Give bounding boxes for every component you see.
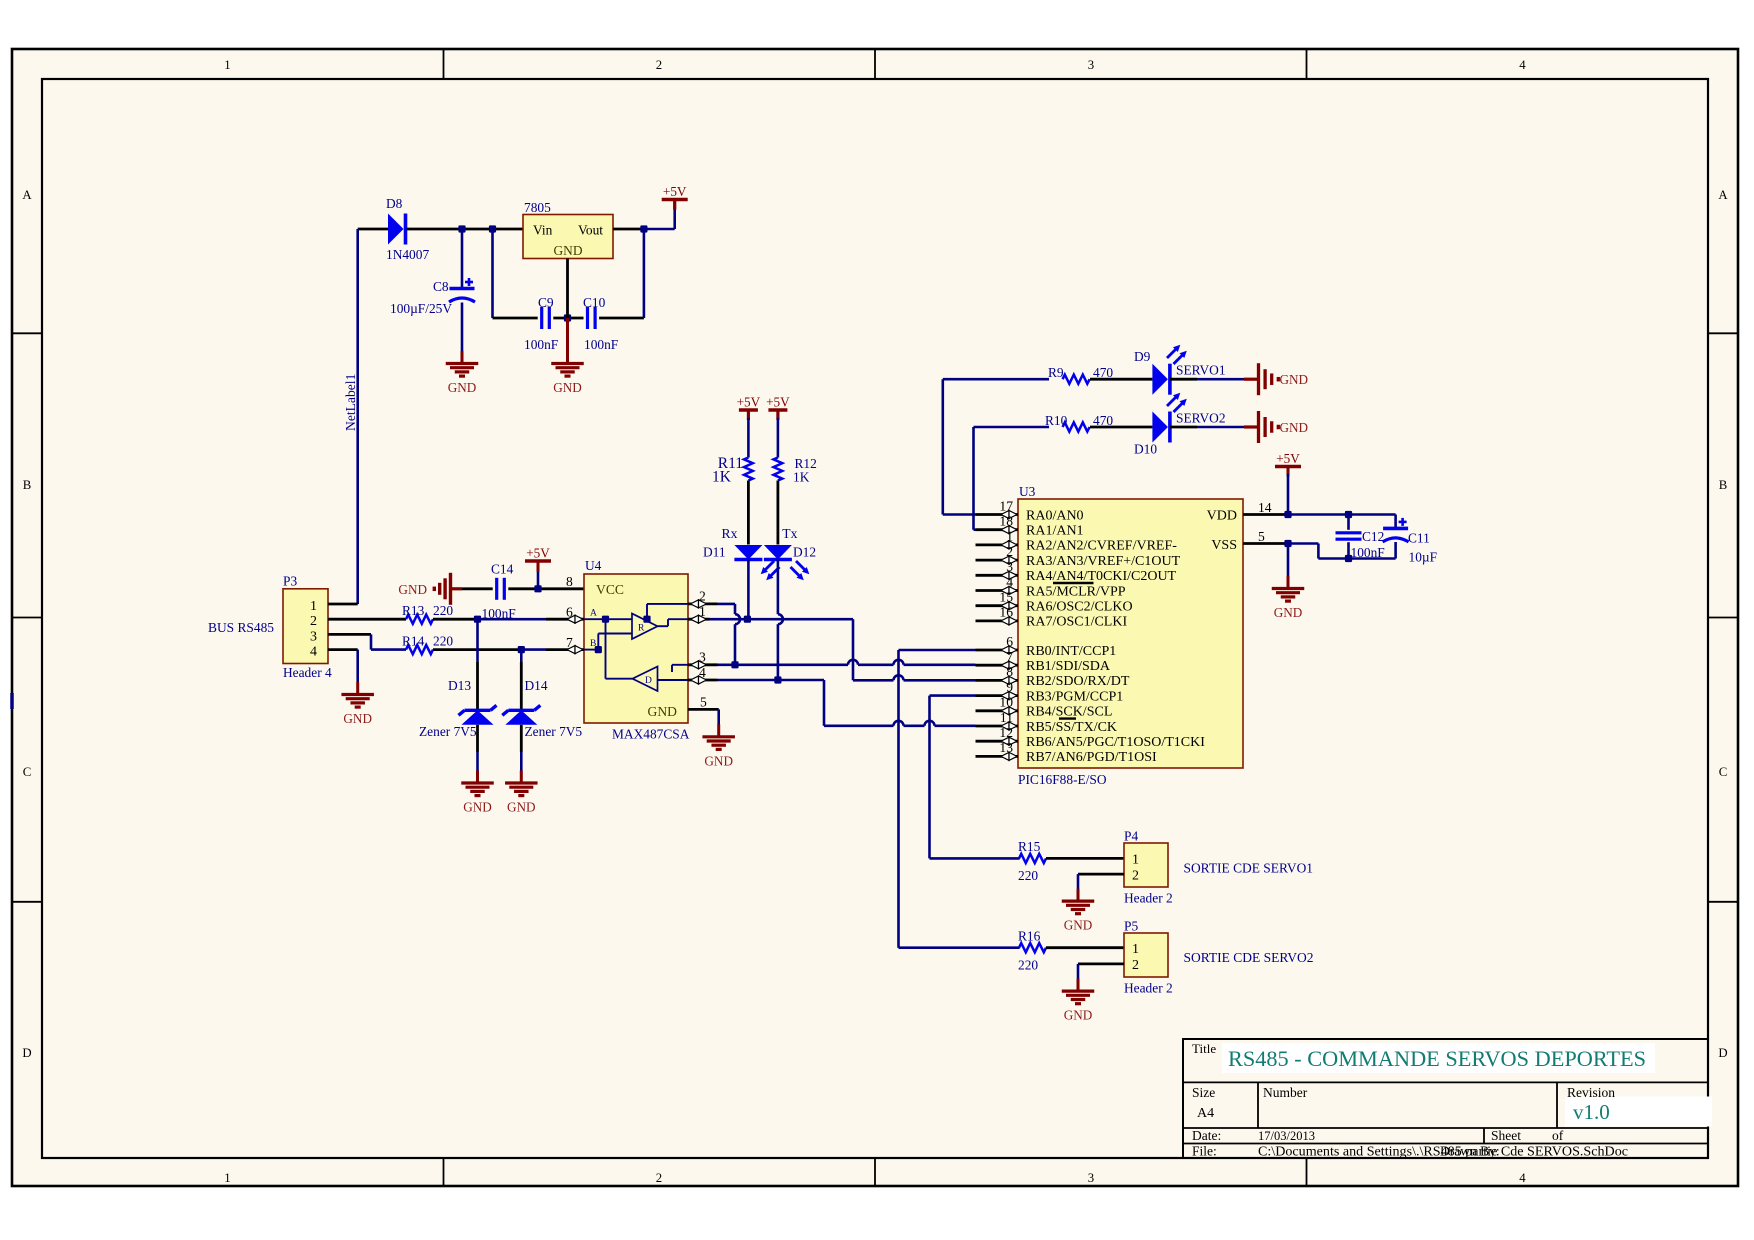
wire R16 to P5 — [1046, 946, 1124, 949]
svg-text:MAX487CSA: MAX487CSA — [612, 727, 690, 742]
svg-text:4: 4 — [699, 665, 706, 680]
svg-text:GND: GND — [463, 800, 492, 815]
pin U4-3 — [688, 663, 718, 666]
pin U3 7 (RB1) — [976, 664, 1019, 667]
svg-text:3: 3 — [699, 650, 706, 665]
svg-text:Drawn By:: Drawn By: — [1440, 1144, 1500, 1159]
svg-text:GND: GND — [553, 243, 582, 258]
svg-text:of: of — [1552, 1128, 1564, 1143]
zener diode D13 — [465, 709, 491, 712]
svg-text:3: 3 — [310, 629, 317, 644]
svg-text:U3: U3 — [1019, 484, 1036, 499]
ground right of D9 — [1244, 378, 1258, 381]
svg-text:R14: R14 — [402, 633, 425, 648]
svg-text:220: 220 — [433, 603, 453, 618]
svg-text:D8: D8 — [386, 196, 403, 211]
junction C12 bottom — [1345, 555, 1352, 562]
svg-text:1: 1 — [1132, 942, 1139, 957]
junction at C9 rail riser — [489, 225, 496, 232]
wire D10 to ground — [1170, 426, 1197, 429]
led D11 — [734, 545, 762, 560]
svg-text:A: A — [1718, 188, 1728, 202]
ground under D14 — [520, 771, 523, 784]
wire 7805 Vout to +5V — [613, 228, 644, 231]
svg-text:A4: A4 — [1197, 1106, 1214, 1121]
svg-text:BUS RS485: BUS RS485 — [208, 620, 274, 635]
svg-text:GND: GND — [704, 753, 733, 768]
svg-text:3: 3 — [1088, 58, 1094, 72]
svg-text:16: 16 — [999, 605, 1013, 620]
pin U3 10 (RB4) — [976, 709, 1019, 712]
pin P3-3 step down — [328, 633, 371, 636]
wire bottom rail — [493, 317, 538, 320]
svg-text:RB1/SDI/SDA: RB1/SDI/SDA — [1026, 659, 1111, 674]
pin U4-2 — [688, 603, 718, 606]
svg-text:RA7/OSC1/CLKI: RA7/OSC1/CLKI — [1026, 615, 1127, 630]
svg-text:D9: D9 — [1134, 349, 1151, 364]
svg-text:GND: GND — [1064, 918, 1093, 933]
svg-text:Sheet: Sheet — [1491, 1128, 1521, 1143]
svg-text:GND: GND — [343, 711, 372, 726]
wire RB0 net corner — [899, 649, 976, 652]
wire RB3 net to R15 — [930, 857, 1020, 860]
connector P5 — [1124, 933, 1168, 977]
wire gnd to C14 — [462, 587, 493, 590]
wire D11 to A-row — [747, 560, 750, 620]
svg-text:7: 7 — [1006, 649, 1013, 664]
svg-text:RB7/AN6/PGD/T1OSI: RB7/AN6/PGD/T1OSI — [1026, 750, 1157, 765]
wire D9 to ground — [1170, 378, 1197, 381]
svg-text:1K: 1K — [793, 470, 810, 485]
svg-text:RS485 - COMMANDE SERVOS DEPORT: RS485 - COMMANDE SERVOS DEPORTES — [1228, 1046, 1646, 1071]
svg-text:4: 4 — [1519, 1171, 1526, 1185]
svg-text:GND: GND — [553, 380, 582, 395]
junction A-line — [474, 616, 481, 623]
svg-text:RB0/INT/CCP1: RB0/INT/CCP1 — [1026, 644, 1116, 659]
resistor R14 — [406, 645, 433, 654]
svg-text:Tx: Tx — [782, 526, 797, 541]
pin U4-4 — [688, 679, 718, 682]
svg-text:VCC: VCC — [596, 582, 624, 597]
svg-text:RA0/AN0: RA0/AN0 — [1026, 508, 1084, 523]
svg-text:RB6/AN5/PGC/T1OSO/T1CKI: RB6/AN5/PGC/T1OSO/T1CKI — [1026, 735, 1205, 750]
svg-text:RA3/AN3/VREF+/C1OUT: RA3/AN3/VREF+/C1OUT — [1026, 554, 1181, 569]
wire C9 to gnd stem — [553, 317, 583, 320]
svg-text:D: D — [1718, 1046, 1727, 1060]
U4 receiver triangle — [632, 614, 658, 640]
svg-text:2: 2 — [1132, 869, 1139, 884]
svg-text:A: A — [22, 188, 32, 202]
svg-text:Revision: Revision — [1567, 1085, 1615, 1100]
U4 internal R output to pin1 — [658, 625, 669, 627]
wire net input to D8 — [358, 228, 388, 231]
svg-text:v1.0: v1.0 — [1573, 1100, 1610, 1124]
ground under 7805 — [566, 318, 569, 351]
power +5V above VDD — [1275, 465, 1301, 468]
pin U4-7 — [546, 648, 584, 651]
svg-text:17/03/2013: 17/03/2013 — [1258, 1128, 1315, 1143]
svg-text:2: 2 — [1132, 958, 1139, 973]
connector P4 — [1124, 843, 1168, 887]
wire VSS to caps bottom — [1288, 542, 1318, 545]
svg-text:C8: C8 — [433, 279, 449, 294]
wire R13 to junction — [433, 618, 478, 621]
overline MCLR — [1053, 582, 1094, 584]
capacitor C8 — [450, 287, 475, 291]
pin U3 16 (RA7) — [976, 620, 1019, 623]
ground under P3 — [356, 682, 359, 695]
svg-text:4: 4 — [310, 645, 317, 660]
stray blue tick on left border — [10, 693, 14, 709]
U4 internal A to D output — [605, 619, 607, 679]
pin U3-14 VDD — [1243, 513, 1288, 516]
svg-text:6: 6 — [1006, 634, 1013, 649]
svg-text:6: 6 — [566, 605, 573, 620]
svg-text:Zener 7V5: Zener 7V5 — [419, 724, 477, 739]
capacitor C9 — [540, 307, 543, 329]
overline SS — [1059, 717, 1076, 719]
U4 internal A line — [584, 618, 632, 620]
svg-text:D: D — [22, 1046, 31, 1060]
svg-text:VDD: VDD — [1207, 509, 1237, 524]
power +5V above R11 — [739, 408, 758, 411]
wire VDD rail to C11 — [1288, 513, 1396, 516]
svg-text:GND: GND — [1064, 1008, 1093, 1023]
svg-text:1: 1 — [1006, 529, 1013, 544]
svg-text:C: C — [23, 765, 32, 779]
svg-text:Header 2: Header 2 — [1124, 891, 1173, 906]
svg-text:D14: D14 — [525, 678, 548, 693]
ground under P5 — [1077, 979, 1080, 992]
svg-text:7: 7 — [566, 635, 573, 650]
svg-text:B: B — [23, 478, 32, 492]
junction 7805 gnd stem — [564, 314, 571, 321]
svg-text:GND: GND — [1280, 420, 1309, 435]
svg-text:RA6/OSC2/CLKO: RA6/OSC2/CLKO — [1026, 600, 1133, 615]
led D10 — [1152, 412, 1168, 443]
title highlight — [1222, 1043, 1655, 1073]
svg-text:R: R — [638, 624, 645, 634]
svg-text:9: 9 — [1006, 679, 1013, 694]
pin U3 8 (RB2) — [976, 679, 1019, 682]
pin U4-8 VCC — [546, 587, 584, 590]
svg-text:4: 4 — [1006, 574, 1013, 589]
U4 internal D input from pin4 — [658, 679, 689, 681]
pin U3 12 (RB6) — [976, 740, 1019, 743]
resistor R15 — [1019, 854, 1046, 863]
svg-text:7805: 7805 — [524, 200, 551, 215]
svg-text:RA4/AN4/T0CKI/C2OUT: RA4/AN4/T0CKI/C2OUT — [1026, 569, 1177, 584]
svg-text:1: 1 — [224, 1171, 230, 1185]
svg-text:P5: P5 — [1124, 919, 1138, 934]
svg-text:VSS: VSS — [1211, 538, 1237, 553]
svg-text:17: 17 — [999, 498, 1013, 513]
junction VSS — [1284, 540, 1291, 547]
svg-text:12: 12 — [999, 725, 1013, 740]
junction B-line — [518, 646, 525, 653]
U4 internal RE line from pin2 — [647, 603, 688, 605]
junction +5V node — [534, 585, 541, 592]
pin P3-4 to ground — [328, 648, 358, 651]
svg-text:P3: P3 — [283, 574, 297, 589]
wire R14 to junction — [433, 648, 521, 651]
zener diode D14 — [508, 709, 534, 712]
capacitor C14 — [495, 578, 498, 600]
svg-text:13: 13 — [999, 740, 1013, 755]
svg-text:+5V: +5V — [526, 546, 550, 561]
pin U3 11 (RB5) — [976, 725, 1019, 728]
resistor R12 — [774, 458, 783, 481]
svg-text:RB5/SS/TX/CK: RB5/SS/TX/CK — [1026, 720, 1117, 735]
svg-text:1N4007: 1N4007 — [386, 247, 429, 262]
svg-text:15: 15 — [999, 590, 1013, 605]
svg-text:SORTIE CDE SERVO2: SORTIE CDE SERVO2 — [1184, 950, 1314, 965]
svg-text:Title: Title — [1192, 1041, 1216, 1056]
svg-text:1: 1 — [699, 604, 706, 619]
svg-text:Header 4: Header 4 — [283, 665, 332, 680]
svg-text:8: 8 — [1006, 664, 1013, 679]
svg-text:100nF: 100nF — [584, 337, 618, 352]
wire D14 branch — [520, 650, 523, 662]
wire C14 to +5V junction — [508, 587, 546, 590]
svg-text:2: 2 — [310, 614, 317, 629]
ground left of C14 — [451, 587, 463, 590]
svg-text:2: 2 — [656, 1171, 662, 1185]
wire RB0 net to R16 — [899, 946, 1020, 949]
svg-text:Size: Size — [1192, 1085, 1215, 1100]
ground right of D10 — [1244, 425, 1258, 428]
wire D14 to ground — [520, 725, 523, 752]
wire R11 to D11 — [747, 481, 750, 545]
resistor R13 — [406, 615, 433, 624]
svg-text:+5V: +5V — [766, 395, 790, 410]
U4 internal B to R lower input — [597, 634, 599, 650]
led D9 — [1152, 364, 1168, 395]
wire D8 cathode to 7805 Vin — [407, 228, 524, 231]
svg-text:220: 220 — [433, 633, 453, 648]
wire rail right riser — [599, 317, 644, 320]
svg-text:C12: C12 — [1362, 529, 1384, 544]
wire R9 to D9 — [1090, 378, 1152, 381]
wire RO net — [710, 618, 854, 621]
connector P3 — [283, 589, 328, 664]
svg-text:100nF: 100nF — [524, 337, 558, 352]
svg-text:+5V: +5V — [1276, 451, 1300, 466]
pin U4-6 — [546, 618, 584, 621]
wire U4 gnd down — [717, 709, 720, 725]
wire RA1 to R10 riser — [974, 528, 976, 531]
svg-text:10µF: 10µF — [1409, 550, 1438, 565]
svg-text:1: 1 — [310, 599, 317, 614]
svg-text:Vout: Vout — [578, 223, 603, 238]
ground under VSS — [1287, 576, 1290, 589]
svg-text:Date:: Date: — [1192, 1128, 1221, 1143]
pin P3-2 wire to R13 — [328, 618, 406, 621]
capacitor C12 — [1336, 531, 1362, 534]
junction D11 on RO row — [744, 616, 751, 623]
svg-text:GND: GND — [448, 380, 477, 395]
svg-text:220: 220 — [1018, 868, 1038, 883]
pin U3 9 (RB3) — [976, 694, 1019, 697]
svg-text:RB2/SDO/RX/DT: RB2/SDO/RX/DT — [1026, 674, 1130, 689]
svg-text:14: 14 — [1258, 500, 1272, 515]
wire R12 to D12 — [777, 481, 780, 545]
svg-text:4: 4 — [1519, 58, 1526, 72]
capacitor C11 — [1383, 527, 1408, 531]
svg-text:+5V: +5V — [663, 184, 687, 199]
wire RA0 to R9 riser — [943, 513, 976, 516]
svg-text:Zener 7V5: Zener 7V5 — [525, 724, 583, 739]
svg-text:R15: R15 — [1018, 839, 1041, 854]
wire R15 to P4 — [1046, 857, 1124, 860]
svg-text:R10: R10 — [1045, 413, 1068, 428]
resistor R10 — [1063, 422, 1090, 431]
svg-text:C9: C9 — [538, 295, 554, 310]
wire DI net — [718, 679, 825, 682]
svg-text:5: 5 — [1258, 529, 1265, 544]
svg-text:SERVO2: SERVO2 — [1176, 410, 1226, 425]
resistor R16 — [1019, 943, 1046, 952]
svg-text:Rx: Rx — [722, 526, 738, 541]
regulator U-7805 — [523, 215, 613, 259]
svg-text:GND: GND — [648, 704, 678, 719]
svg-text:File:: File: — [1192, 1144, 1217, 1159]
pin U3 2 (RA3) — [976, 559, 1019, 562]
wire VSS to ground — [1287, 544, 1290, 577]
U4 driver triangle — [633, 667, 658, 692]
svg-text:11: 11 — [1000, 710, 1013, 725]
svg-text:B: B — [1719, 478, 1728, 492]
wire C8 to ground — [461, 303, 464, 352]
svg-text:8: 8 — [566, 574, 573, 589]
svg-text:2: 2 — [1006, 544, 1013, 559]
pin U3 13 (RB7) — [976, 755, 1019, 758]
svg-text:220: 220 — [1018, 957, 1038, 972]
pin U4-5 GND — [688, 708, 719, 711]
svg-text:D13: D13 — [448, 678, 471, 693]
capacitor C10 — [586, 307, 589, 329]
svg-text:470: 470 — [1093, 413, 1113, 428]
svg-text:SORTIE CDE SERVO1: SORTIE CDE SERVO1 — [1184, 861, 1314, 876]
wire NetLabel1 vertical — [356, 229, 359, 604]
pin U3 18 (RA1) — [976, 528, 1019, 531]
svg-text:2: 2 — [656, 58, 662, 72]
svg-text:100nF: 100nF — [482, 606, 516, 621]
svg-text:GND: GND — [507, 800, 536, 815]
svg-text:Vin: Vin — [533, 223, 553, 238]
led D12 — [764, 545, 792, 560]
svg-text:RA5/MCLR/VPP: RA5/MCLR/VPP — [1026, 584, 1126, 599]
pin U4-1 — [688, 618, 710, 621]
svg-text:RB3/PGM/CCP1: RB3/PGM/CCP1 — [1026, 689, 1123, 704]
svg-text:Number: Number — [1263, 1085, 1308, 1100]
ground under P4 — [1077, 889, 1080, 902]
pin P5-2 to ground — [1078, 963, 1124, 966]
wire DE/RE net to RB1 — [718, 663, 849, 666]
wire rail left riser — [491, 229, 494, 318]
ground under U4 — [717, 724, 720, 737]
svg-text:GND: GND — [1280, 372, 1309, 387]
wire C11 riser — [1394, 515, 1397, 529]
svg-text:3: 3 — [1088, 1171, 1094, 1185]
revision highlight — [1565, 1097, 1712, 1127]
wire 7805 GND pin down — [566, 259, 569, 319]
pin P3-1 — [328, 603, 358, 606]
ground under C8 — [461, 351, 464, 364]
wire junction to U4 pin7 — [521, 648, 546, 651]
wire pin2 branch down to DE net — [718, 603, 736, 606]
pin P4-2 to ground — [1078, 873, 1124, 876]
U4 internal B line — [584, 649, 598, 651]
zone column ticks — [443, 49, 445, 79]
ground under D13 — [476, 771, 479, 784]
svg-text:470: 470 — [1093, 365, 1113, 380]
svg-text:5: 5 — [700, 695, 707, 710]
pin U3 15 (RA6) — [976, 604, 1019, 607]
wire D13 branch — [476, 619, 479, 662]
power +5V (regulator output) — [662, 198, 688, 201]
svg-text:GND: GND — [1274, 605, 1303, 620]
svg-text:C14: C14 — [491, 562, 514, 577]
power +5V above R12 — [768, 408, 787, 411]
svg-text:18: 18 — [999, 514, 1013, 529]
U4 internal DE line from pin3 — [672, 664, 688, 666]
svg-text:SERVO1: SERVO1 — [1176, 363, 1226, 378]
svg-text:D12: D12 — [793, 545, 816, 560]
svg-text:PIC16F88-E/SO: PIC16F88-E/SO — [1018, 772, 1107, 787]
svg-text:RA1/AN1: RA1/AN1 — [1026, 524, 1084, 539]
zone row ticks — [12, 332, 42, 334]
ic U4 MAX487CSA body — [584, 574, 688, 723]
svg-text:P4: P4 — [1124, 829, 1138, 844]
svg-text:RA2/AN2/CVREF/VREF-: RA2/AN2/CVREF/VREF- — [1026, 539, 1177, 554]
svg-text:GND: GND — [398, 582, 427, 597]
svg-text:1: 1 — [1132, 853, 1139, 868]
wire R10 to D10 — [1090, 426, 1152, 429]
svg-text:D11: D11 — [703, 545, 726, 560]
title block frame — [1183, 1039, 1708, 1158]
svg-text:+5V: +5V — [737, 395, 761, 410]
svg-text:U4: U4 — [585, 558, 602, 573]
svg-text:3: 3 — [1006, 559, 1013, 574]
pin U3 17 (RA0) — [976, 513, 1019, 516]
svg-text:1: 1 — [224, 58, 230, 72]
diode D8 — [388, 214, 404, 245]
svg-text:C10: C10 — [583, 295, 606, 310]
ic U3 PIC16F88 body — [1018, 499, 1243, 768]
resistor R9 — [1063, 375, 1090, 384]
svg-text:B: B — [590, 639, 596, 649]
pin U3-5 VSS — [1243, 542, 1288, 545]
svg-text:A: A — [590, 609, 597, 619]
pin U3 1 (RA2) — [976, 544, 1019, 547]
junction at C8 tap — [458, 225, 465, 232]
svg-text:R9: R9 — [1048, 365, 1064, 380]
resistor R11 — [744, 458, 753, 481]
svg-text:NetLabel1: NetLabel1 — [343, 374, 358, 431]
junction C12 top — [1345, 511, 1352, 518]
svg-text:100µF/25V: 100µF/25V — [390, 301, 452, 316]
svg-text:C11: C11 — [1408, 531, 1430, 546]
svg-text:10: 10 — [999, 695, 1013, 710]
svg-text:R16: R16 — [1018, 928, 1041, 943]
power +5V above C14 — [537, 568, 540, 589]
pin U3 4 (RA5) — [976, 589, 1019, 592]
svg-text:Header 2: Header 2 — [1124, 981, 1173, 996]
pin U3 6 (RB0) — [976, 649, 1019, 652]
wire RB3 net corner — [930, 694, 976, 697]
svg-text:D: D — [645, 676, 652, 686]
